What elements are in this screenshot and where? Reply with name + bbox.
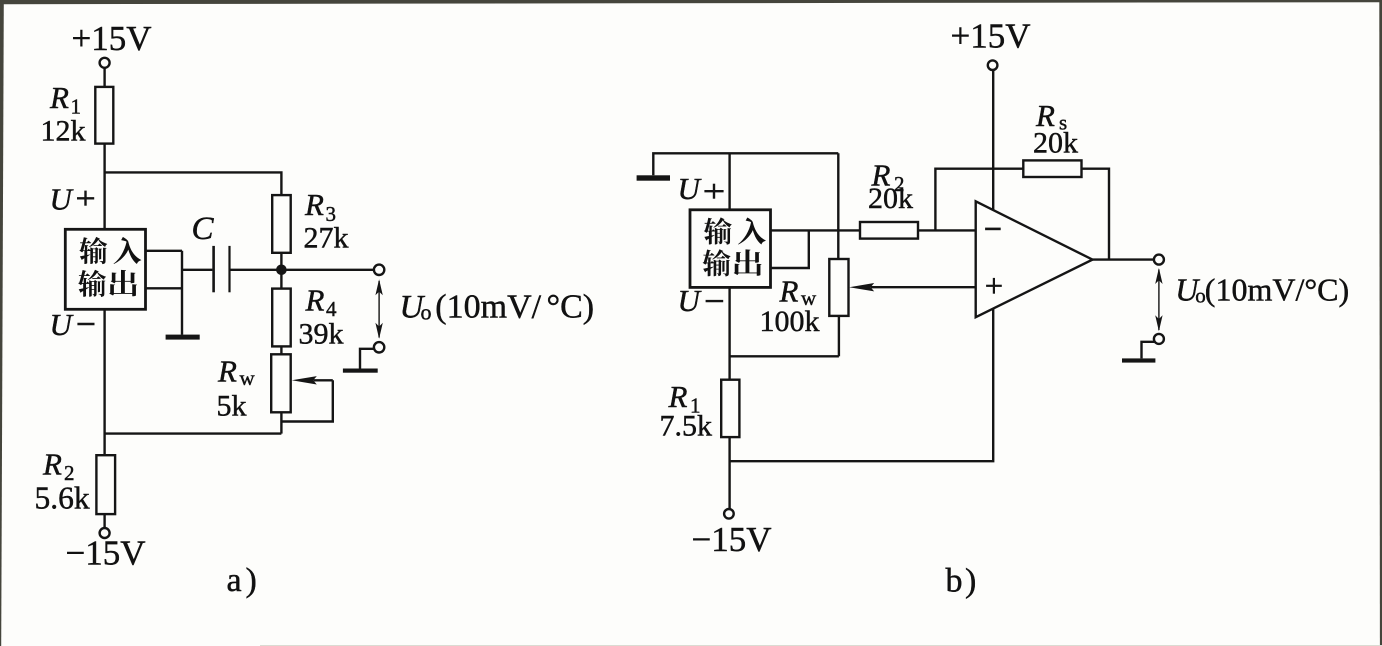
wire box a stub vertical to ground <box>181 251 183 335</box>
border frame right <box>1379 0 1382 646</box>
op-amp minus input symbol <box>985 228 1001 231</box>
potentiometer Rw b <box>829 259 848 316</box>
ground at output b <box>1142 342 1155 359</box>
wire box a bottom to R2 <box>103 309 105 455</box>
resistor R1 <box>95 87 113 144</box>
svg-text:U: U <box>50 307 75 342</box>
svg-text:C: C <box>192 211 215 247</box>
svg-text:20k: 20k <box>868 182 913 215</box>
output terminal b <box>1154 255 1164 265</box>
wire box b bottom stub <box>771 230 809 268</box>
wire bottom link b <box>730 355 839 357</box>
svg-text:): ) <box>965 562 976 599</box>
output lower terminal b <box>1154 334 1164 344</box>
sensor box a text 输出 <box>78 270 137 297</box>
ground top-left b <box>637 175 670 180</box>
svg-text:27k: 27k <box>304 222 349 255</box>
wire R1 b to -15V <box>728 437 730 509</box>
op-amp plus input symbol <box>986 285 1002 287</box>
wire box a top stub <box>146 250 183 252</box>
output arrow a <box>375 279 382 339</box>
svg-text:): ) <box>246 562 257 599</box>
wire wiper loop a <box>282 380 333 421</box>
wire op-amp output <box>1093 258 1155 260</box>
wire main vertical b top <box>728 153 730 210</box>
svg-text:+15V: +15V <box>951 17 1031 56</box>
potentiometer Rw a <box>271 354 291 412</box>
sensor box a text 输入 <box>79 237 141 264</box>
feedback wire right <box>1082 169 1110 260</box>
potentiometer Rw a wiper arrow <box>292 376 317 384</box>
svg-text:w: w <box>240 366 256 390</box>
svg-text:°C): °C) <box>547 289 595 326</box>
capacitor C plates <box>212 246 215 292</box>
resistor R2 <box>96 455 115 514</box>
svg-text:R: R <box>217 354 237 389</box>
resistor R4 <box>272 289 291 347</box>
resistor Rs <box>1023 160 1081 177</box>
wire box b bottom to R1 <box>728 287 730 379</box>
svg-text:5k: 5k <box>217 390 247 423</box>
supply +15V terminal a <box>100 58 110 68</box>
wire R3 to R4 <box>280 253 282 289</box>
wire +15V to op-amp V+ pin <box>992 70 994 212</box>
wire -15V branch to op-amp V- pin <box>730 308 994 461</box>
output lower terminal a <box>374 342 384 352</box>
wire box a bottom stub <box>146 287 183 289</box>
svg-text:−15V: −15V <box>66 534 146 573</box>
wire Rw b bottom stub <box>838 316 840 356</box>
op-amp U1 <box>976 201 1093 317</box>
supply -15V terminal b <box>724 509 734 519</box>
svg-text:R: R <box>304 187 324 222</box>
ground under C <box>166 335 200 340</box>
border frame top <box>0 0 1382 4</box>
sensor box a (input/output) <box>65 229 145 309</box>
wire C to node <box>231 269 375 271</box>
wire to capacitor C <box>182 269 212 271</box>
wire box b top stub to R2 <box>771 229 861 231</box>
svg-text:100k: 100k <box>760 305 820 338</box>
wire R1 to box top <box>103 144 105 230</box>
wire R2 to op-amp <box>918 229 976 231</box>
potentiometer Rw b wiper arrow <box>849 283 874 291</box>
sensor box b (input/output) <box>690 210 771 288</box>
sensor box b text 输出 <box>703 249 762 276</box>
wire +15V to R1 <box>103 68 105 87</box>
svg-text:U: U <box>678 283 703 318</box>
supply +15V terminal b <box>988 60 998 70</box>
svg-text:a: a <box>227 562 242 599</box>
svg-text:U: U <box>50 182 75 217</box>
svg-text:R: R <box>779 274 799 309</box>
svg-text:+15V: +15V <box>72 19 152 58</box>
svg-text:R: R <box>42 447 62 482</box>
feedback wire left vertical <box>935 169 1023 231</box>
svg-text:−15V: −15V <box>692 520 772 559</box>
svg-text:b: b <box>946 562 963 599</box>
svg-text:R: R <box>305 283 325 318</box>
wire node to output terminal a <box>374 265 384 275</box>
output arrow b <box>1155 268 1162 331</box>
wire ground rail to Rw top <box>837 153 839 259</box>
svg-text:20k: 20k <box>1033 127 1078 160</box>
border frame bottom <box>260 645 1382 646</box>
svg-text:5.6k: 5.6k <box>35 481 90 516</box>
supply -15V terminal a <box>100 528 110 538</box>
ground at output a <box>360 349 374 369</box>
wire bottom feedback a <box>105 432 282 434</box>
svg-text:(10mV/: (10mV/ <box>435 289 541 326</box>
sensor box b text 输入 <box>704 217 766 244</box>
wire R4 to Rw <box>280 346 282 354</box>
wire Rw bottom stub <box>280 412 282 433</box>
wire node U+ branch to R3 <box>105 172 282 195</box>
resistor R1 b <box>721 380 739 437</box>
svg-text:(10mV/°C): (10mV/°C) <box>1205 272 1349 308</box>
svg-text:o: o <box>421 300 432 325</box>
junction node dot a <box>276 265 287 276</box>
wire R2 to -15V <box>103 514 105 528</box>
svg-text:7.5k: 7.5k <box>660 410 713 443</box>
resistor R2 b <box>860 222 918 239</box>
svg-text:U: U <box>678 171 703 206</box>
svg-text:39k: 39k <box>299 318 344 351</box>
border frame left <box>0 0 4 646</box>
resistor R3 <box>272 195 291 253</box>
svg-text:12k: 12k <box>41 115 86 148</box>
svg-text:R: R <box>49 80 69 115</box>
